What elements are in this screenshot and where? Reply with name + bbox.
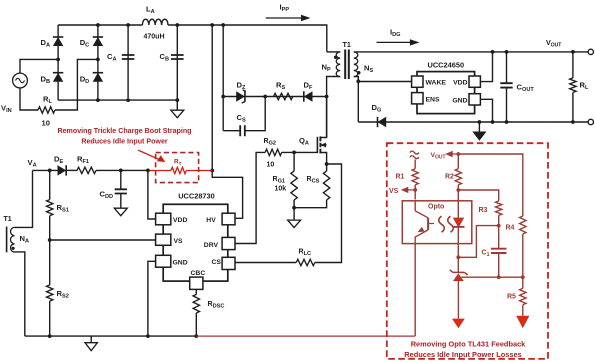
svg-text:VDD: VDD: [453, 80, 467, 87]
transformer T1 primary: [322, 52, 341, 77]
wire GND U1: [146, 261, 156, 338]
svg-text:UCC28730: UCC28730: [178, 192, 215, 201]
wire snubber: [223, 96, 326, 98]
capacitor C1: [482, 226, 507, 280]
wire source to RLC: [315, 164, 342, 263]
wire primary bottom: [327, 77, 341, 138]
opto light coupling: [439, 216, 454, 232]
arrow R5 ground: [516, 316, 529, 328]
wire primary top: [327, 51, 340, 53]
wire bulk rail: [58, 25, 327, 52]
node VDD riser: [146, 169, 150, 173]
wire led cathode to C1 node: [458, 226, 498, 258]
resistor RLC: [235, 249, 315, 266]
terminal return: [588, 119, 593, 124]
resistor R4: [506, 216, 527, 277]
arrow VOUT feedback: [445, 151, 460, 157]
svg-text:T1: T1: [4, 216, 12, 223]
node snubber2: [325, 95, 329, 99]
resistor RS1: [47, 169, 69, 241]
ic U1 UCC28730 box: [163, 192, 228, 282]
svg-text:ENS: ENS: [426, 96, 440, 103]
wire secondary top: [354, 51, 591, 53]
diode DC: [80, 25, 103, 100]
node snubber1: [263, 95, 267, 99]
wire secondary bottom: [354, 77, 360, 123]
red dashed box RT: [156, 153, 199, 183]
zener DZ: [236, 80, 246, 103]
node VA: [28, 158, 58, 170]
pin ENS: [412, 93, 440, 104]
resistor RS: [274, 80, 293, 99]
arrow tl431 anode: [452, 319, 465, 329]
svg-text:CS: CS: [212, 259, 222, 266]
svg-text:Removing Opto TL431 Feedback: Removing Opto TL431 Feedback: [411, 340, 526, 349]
tl431 shunt: [450, 257, 468, 318]
svg-text:CBC: CBC: [191, 270, 206, 277]
wire tl431 ref: [462, 275, 525, 279]
opto box: [402, 201, 472, 244]
svg-text:10: 10: [267, 162, 275, 169]
transformer T1 secondary: [354, 52, 374, 77]
svg-text:VS: VS: [174, 238, 184, 245]
label VOUT feedback: [431, 152, 446, 161]
diode DB: [41, 73, 64, 85]
wire negative rail: [58, 99, 177, 101]
svg-text:VDD: VDD: [173, 217, 187, 224]
capacitor COUT: [500, 50, 534, 124]
gnd arrow secondary: [472, 120, 486, 141]
svg-text:R3: R3: [479, 207, 488, 214]
ground at RG1: [288, 208, 301, 228]
red note trickle: [57, 127, 191, 146]
wire riser snubber: [221, 23, 225, 131]
svg-text:Reduces Idle Input Power Losse: Reduces Idle Input Power Losses: [404, 350, 521, 359]
node led cathode: [456, 255, 460, 259]
wire WAKE: [358, 81, 411, 83]
red arrow to RT: [138, 150, 165, 162]
red wire feedback to ground: [196, 335, 415, 337]
node AC1: [56, 58, 60, 62]
current arrow IPP: [266, 3, 311, 22]
capacitor CS: [223, 97, 265, 137]
pin VDD U2: [453, 76, 480, 87]
wire VOUT to R4: [458, 154, 523, 216]
ac source VIN: [1, 59, 58, 114]
transformer T1 aux winding: [4, 170, 33, 336]
break symbol above R1: [410, 151, 419, 159]
pin VS: [156, 234, 183, 245]
diode DD: [80, 73, 103, 85]
svg-text:Reduces Idle Input Power: Reduces Idle Input Power: [81, 138, 168, 146]
resistor R5: [507, 277, 526, 316]
node AC2: [96, 23, 100, 102]
resistor RCS: [294, 164, 330, 208]
wire R2 to R3: [458, 190, 498, 201]
diode DF: [304, 80, 313, 101]
mosfet QA: [299, 97, 327, 165]
resistor RG1: [273, 152, 298, 209]
ic U2 UCC24650 box: [417, 61, 475, 114]
arrow VS out: [389, 187, 415, 195]
svg-text:UCC24650: UCC24650: [428, 61, 465, 70]
svg-text:Removing Trickle Charge Boot S: Removing Trickle Charge Boot Straping: [57, 127, 191, 135]
wire VS: [50, 239, 156, 241]
svg-text:10: 10: [42, 119, 50, 128]
wire riser RT-HV: [210, 23, 242, 218]
svg-text:GND: GND: [452, 97, 467, 104]
wire DRV: [235, 152, 265, 243]
svg-text:HV: HV: [206, 217, 216, 224]
svg-text:Opto: Opto: [428, 203, 444, 210]
wire VDD U1: [148, 170, 156, 219]
svg-text:DRV: DRV: [204, 242, 219, 249]
wire VDD U2: [480, 50, 494, 82]
resistor RT: [150, 158, 213, 173]
pin DRV: [204, 237, 235, 249]
capacitor CA: [107, 23, 134, 102]
resistor RL input: [38, 59, 98, 127]
svg-text:T1: T1: [343, 40, 351, 49]
ground primary: [85, 336, 97, 351]
resistor R1: [396, 160, 419, 200]
svg-text:R2: R2: [445, 174, 454, 181]
ground at CDD: [114, 208, 127, 216]
resistor RF1: [66, 155, 149, 174]
wire opto emitter to gnd: [414, 244, 416, 337]
current arrow IDG: [377, 27, 420, 45]
pin HV: [206, 213, 235, 225]
svg-text:VS: VS: [389, 188, 399, 195]
transformer T1 core: [343, 40, 351, 79]
red note feedback: [404, 340, 526, 359]
opto transistor: [415, 201, 434, 244]
resistor RS2: [47, 240, 69, 338]
resistor RDSC: [193, 289, 224, 338]
diode DA: [41, 25, 64, 100]
pin VDD U1: [156, 213, 188, 225]
pin GND U1: [156, 255, 188, 267]
capacitor CDD: [100, 169, 127, 209]
wire primary ground rail: [25, 335, 197, 337]
svg-text:R5: R5: [507, 294, 516, 301]
ground at CB: [171, 110, 184, 118]
pin CS: [212, 257, 236, 269]
svg-text:470uH: 470uH: [144, 34, 165, 41]
node VS divider: [48, 238, 52, 242]
diode DG: [358, 103, 590, 127]
svg-text:R4: R4: [506, 225, 515, 232]
node QA source: [325, 162, 329, 166]
resistor R3: [479, 201, 502, 228]
svg-text:10k: 10k: [275, 186, 287, 193]
opto led: [453, 190, 464, 257]
pin CBC: [190, 270, 206, 289]
resistor RG2: [264, 138, 318, 169]
wire GND U2: [480, 99, 494, 124]
svg-text:GND: GND: [173, 260, 188, 267]
capacitor CB: [160, 23, 184, 110]
node VS opto: [413, 188, 417, 192]
resistor RL output: [570, 50, 589, 124]
pin WAKE: [412, 76, 447, 87]
inductor LA: [142, 5, 168, 41]
pin GND U2: [452, 94, 480, 105]
svg-text:R1: R1: [396, 174, 405, 181]
diode DE: [54, 155, 66, 176]
terminal VOUT: [546, 38, 594, 55]
resistor R2: [445, 154, 462, 192]
svg-text:WAKE: WAKE: [426, 80, 447, 87]
red dashed box feedback: [387, 143, 548, 359]
